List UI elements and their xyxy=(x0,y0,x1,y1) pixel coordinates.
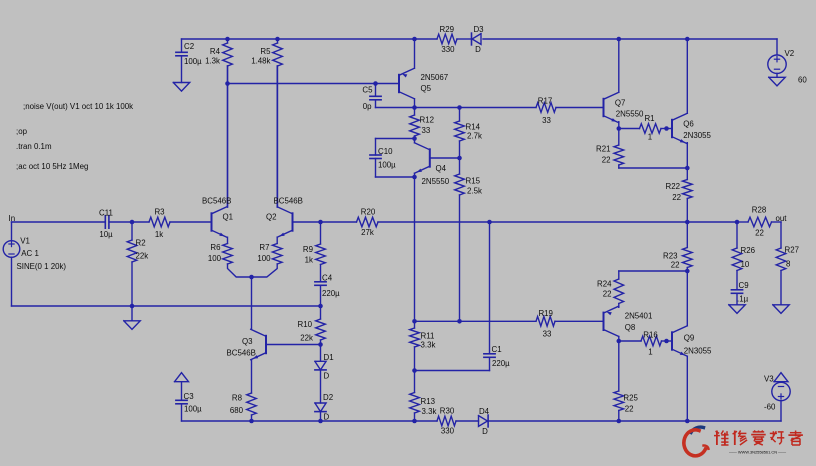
wire Q1 emitter xyxy=(227,237,229,243)
diode D3 xyxy=(472,33,482,45)
svg-text:AC 1: AC 1 xyxy=(21,249,39,258)
svg-text:D2: D2 xyxy=(323,393,333,402)
wire R1 to Q6 base xyxy=(667,128,673,130)
svg-text:Q6: Q6 xyxy=(683,120,694,129)
wire R23-R24 rail xyxy=(619,270,688,272)
wire Q2 base to R20 xyxy=(293,221,357,223)
svg-text:Q3: Q3 xyxy=(242,337,253,346)
svg-text:R27: R27 xyxy=(785,245,799,254)
resistor R25 xyxy=(614,341,624,421)
ground under C9 xyxy=(729,305,745,314)
svg-text:BC546B: BC546B xyxy=(274,197,303,206)
svg-text:R4: R4 xyxy=(210,47,221,56)
svg-text:22: 22 xyxy=(625,404,634,413)
svg-text:2N5550: 2N5550 xyxy=(422,177,450,186)
svg-text:R1: R1 xyxy=(644,114,654,123)
svg-text:Q8: Q8 xyxy=(625,323,636,332)
wire Q1 collector xyxy=(227,66,229,207)
capacitor C2 xyxy=(176,39,187,83)
svg-text:R25: R25 xyxy=(623,394,638,403)
wire Q6 emitter xyxy=(686,143,688,168)
svg-text:1k: 1k xyxy=(305,256,313,265)
svg-text:2N5067: 2N5067 xyxy=(421,73,449,82)
svg-text:22: 22 xyxy=(603,290,612,299)
resistor R13 xyxy=(410,371,420,422)
wire R11 bottom to C1 xyxy=(415,370,490,372)
resistor R7 xyxy=(252,244,283,278)
svg-text:1: 1 xyxy=(648,347,652,356)
resistor R22 xyxy=(683,168,693,222)
svg-text:;op: ;op xyxy=(16,127,28,136)
svg-text:2N5401: 2N5401 xyxy=(625,312,653,321)
svg-text:D: D xyxy=(482,427,488,436)
svg-text:BC546B: BC546B xyxy=(202,197,231,206)
svg-text:C4: C4 xyxy=(322,274,333,283)
capacitor C5 xyxy=(370,84,381,108)
svg-text:C9: C9 xyxy=(739,281,750,290)
svg-text:100: 100 xyxy=(208,254,222,263)
svg-text:R19: R19 xyxy=(538,309,553,318)
wire ground rail xyxy=(12,305,321,307)
svg-text:Q5: Q5 xyxy=(421,84,432,93)
node in wire xyxy=(12,221,106,223)
wire Q2 emitter xyxy=(276,237,278,243)
wire Q2 collector xyxy=(276,66,278,207)
diode D1 xyxy=(315,345,326,370)
svg-text:1k: 1k xyxy=(155,230,163,239)
svg-text:1: 1 xyxy=(648,133,652,142)
svg-text:C3: C3 xyxy=(184,392,195,401)
svg-text:R23: R23 xyxy=(663,251,678,260)
transistor Q3 xyxy=(251,329,266,359)
wire bottom rail xyxy=(182,401,782,421)
svg-text:680: 680 xyxy=(230,406,244,415)
watermark logo xyxy=(684,427,709,456)
svg-text:R13: R13 xyxy=(421,397,436,406)
svg-text:R9: R9 xyxy=(303,245,314,254)
wire Q8 collector xyxy=(618,337,620,342)
svg-text:R3: R3 xyxy=(154,208,165,217)
transistor Q9 xyxy=(672,326,687,356)
svg-text:R15: R15 xyxy=(466,177,481,186)
transistor Q5 xyxy=(399,68,414,98)
svg-text:V3: V3 xyxy=(764,375,774,384)
svg-text:10: 10 xyxy=(741,260,750,269)
resistor R27 xyxy=(776,248,786,305)
svg-text:100µ: 100µ xyxy=(184,57,202,66)
resistor R20 xyxy=(357,217,379,227)
svg-text:3.3k: 3.3k xyxy=(421,341,436,350)
svg-text:8: 8 xyxy=(786,260,791,269)
svg-text:BC546B: BC546B xyxy=(227,349,256,358)
wire LTP tail xyxy=(251,277,253,329)
wire Q5 emitter xyxy=(414,39,416,68)
resistor R8 xyxy=(247,393,257,421)
svg-text:22: 22 xyxy=(671,260,680,269)
svg-text:R21: R21 xyxy=(596,145,610,154)
ground under V2 xyxy=(769,73,785,86)
svg-text:R7: R7 xyxy=(259,243,269,252)
svg-text:;ac oct 10 5Hz 1Meg: ;ac oct 10 5Hz 1Meg xyxy=(16,162,88,171)
capacitor C10 loop xyxy=(370,139,415,178)
capacitor C1 xyxy=(484,222,495,371)
wire Q4 emitter xyxy=(414,173,416,177)
svg-text:Q2: Q2 xyxy=(266,213,277,222)
ground under R27 xyxy=(773,305,789,314)
svg-text:Q7: Q7 xyxy=(615,98,626,107)
wire Q4 base xyxy=(430,157,460,159)
wire R21-Q6e rail xyxy=(619,167,688,169)
wire Q1-collector rail xyxy=(228,83,400,85)
svg-text:R22: R22 xyxy=(666,182,680,191)
svg-text:V1: V1 xyxy=(20,237,30,246)
svg-text:R14: R14 xyxy=(466,123,481,132)
svg-text:2.5k: 2.5k xyxy=(467,187,482,196)
resistor R14 xyxy=(455,108,465,159)
svg-text:V2: V2 xyxy=(785,49,795,58)
resistor R24 xyxy=(614,271,624,307)
svg-text:220µ: 220µ xyxy=(322,289,340,298)
ground under R2 xyxy=(124,306,140,329)
wire fb rail xyxy=(415,320,604,322)
wire Q7 emitter xyxy=(618,122,620,129)
svg-text:330: 330 xyxy=(441,427,455,436)
svg-text:3.3k: 3.3k xyxy=(422,407,437,416)
resistor R21 xyxy=(614,129,624,169)
resistor R30 xyxy=(437,416,456,426)
svg-text:D: D xyxy=(475,45,481,54)
svg-text:R20: R20 xyxy=(361,207,376,216)
wire Q3 emitter xyxy=(251,360,253,393)
ground under C2 xyxy=(173,83,189,92)
resistor R3 xyxy=(149,217,212,227)
svg-text:R17: R17 xyxy=(538,96,552,105)
svg-text:22k: 22k xyxy=(300,334,313,343)
svg-text:out: out xyxy=(776,214,788,223)
capacitor C4 xyxy=(315,282,326,306)
svg-text:2.7k: 2.7k xyxy=(467,132,482,141)
resistor R2 xyxy=(127,222,137,306)
svg-text:;noise V(out) V1 oct 10 1k 100: ;noise V(out) V1 oct 10 1k 100k xyxy=(23,102,133,111)
svg-text:-60: -60 xyxy=(764,402,776,411)
svg-text:33: 33 xyxy=(422,126,431,135)
watermark text xyxy=(714,431,803,455)
svg-text:R2: R2 xyxy=(136,239,146,248)
svg-text:R28: R28 xyxy=(752,205,767,214)
capacitor C9 xyxy=(731,290,742,305)
svg-text:R11: R11 xyxy=(421,332,435,341)
wire out drop xyxy=(780,222,782,248)
svg-text:60: 60 xyxy=(798,76,807,85)
svg-text:R29: R29 xyxy=(440,25,455,34)
resistor R24 lead xyxy=(618,306,620,308)
svg-text:SINE(0 1 20k): SINE(0 1 20k) xyxy=(17,262,67,271)
svg-text:R8: R8 xyxy=(232,393,243,402)
svg-text:D4: D4 xyxy=(479,407,490,416)
svg-text:D: D xyxy=(324,371,330,380)
resistor R10 xyxy=(316,306,326,345)
wire Q7 base lead xyxy=(603,107,605,109)
voltage source V1 xyxy=(3,222,20,306)
svg-text:220µ: 220µ xyxy=(492,359,510,368)
svg-text:Q9: Q9 xyxy=(684,333,695,342)
svg-text:100: 100 xyxy=(257,254,271,263)
svg-text:100µ: 100µ xyxy=(378,161,396,170)
svg-text:R12: R12 xyxy=(420,116,434,125)
svg-text:D: D xyxy=(324,412,330,421)
resistor R29 xyxy=(437,34,457,44)
svg-text:33: 33 xyxy=(542,116,551,125)
resistor R26 xyxy=(732,222,742,290)
svg-text:Q1: Q1 xyxy=(223,213,234,222)
capacitor C3 xyxy=(175,373,189,421)
svg-text:C2: C2 xyxy=(184,42,194,51)
svg-text:22: 22 xyxy=(602,156,611,165)
svg-text:2N5550: 2N5550 xyxy=(616,110,644,119)
wire out rail xyxy=(378,221,737,223)
wire Q7 collector xyxy=(618,39,620,92)
svg-text:R5: R5 xyxy=(260,47,271,56)
diode D4 xyxy=(479,415,489,427)
resistor R5 xyxy=(273,39,283,207)
svg-text:R26: R26 xyxy=(741,246,756,255)
transistor Q1 xyxy=(212,207,227,237)
resistor R9 xyxy=(316,222,326,282)
svg-text:C1: C1 xyxy=(492,345,502,354)
transistor Q6 xyxy=(672,113,687,143)
svg-text:2N3055: 2N3055 xyxy=(684,346,712,355)
svg-text:33: 33 xyxy=(543,330,552,339)
svg-text:D3: D3 xyxy=(473,25,484,34)
diode D2 xyxy=(315,370,326,421)
wire C11 to R3 xyxy=(109,221,149,223)
svg-text:1.3k: 1.3k xyxy=(205,57,220,66)
svg-text:Q4: Q4 xyxy=(436,164,447,173)
resistor R11 xyxy=(410,321,420,370)
wire R16 to Q9 base xyxy=(667,340,673,342)
svg-text:—— WWW.3N2558561.CN ——: —— WWW.3N2558561.CN —— xyxy=(729,450,786,455)
wire top +rail xyxy=(182,39,778,55)
resistor R16 xyxy=(619,336,667,346)
resistor R6 xyxy=(223,244,252,278)
svg-text:.1µ: .1µ xyxy=(737,295,749,304)
svg-text:10µ: 10µ xyxy=(99,230,113,239)
transistor Q7 xyxy=(604,92,619,122)
wire Q4e to fb node xyxy=(414,177,416,321)
svg-text:D1: D1 xyxy=(324,353,334,362)
transistor Q4 xyxy=(415,143,430,173)
svg-text:330: 330 xyxy=(441,45,455,54)
voltage source V3 xyxy=(772,373,790,401)
wire Q4 collector xyxy=(414,139,416,143)
transistor Q2 xyxy=(277,207,292,237)
svg-text:1.48k: 1.48k xyxy=(251,57,270,66)
wire Q9 collector xyxy=(686,271,688,326)
svg-text:.tran 0.1m: .tran 0.1m xyxy=(16,142,52,151)
resistor R12 xyxy=(410,108,420,139)
resistor R15 xyxy=(455,158,465,321)
transistor Q8 xyxy=(604,306,619,336)
svg-text:R10: R10 xyxy=(298,320,313,329)
capacitor C11 xyxy=(105,216,109,228)
svg-text:22: 22 xyxy=(755,228,764,237)
svg-text:C10: C10 xyxy=(378,147,393,156)
svg-text:0p: 0p xyxy=(363,102,372,111)
voltage source V2 xyxy=(768,55,786,73)
resistor R17 xyxy=(536,103,556,113)
resistor R19 xyxy=(536,317,555,327)
wire Q9 emitter xyxy=(686,356,688,421)
wire Q6 collector xyxy=(686,39,688,113)
svg-text:27k: 27k xyxy=(361,228,374,237)
resistor R1 xyxy=(619,124,667,134)
resistor R28 xyxy=(737,217,781,227)
svg-text:R30: R30 xyxy=(440,407,455,416)
svg-text:C11: C11 xyxy=(99,209,113,218)
svg-text:2N3055: 2N3055 xyxy=(683,131,711,140)
svg-text:100µ: 100µ xyxy=(184,405,202,414)
svg-text:R16: R16 xyxy=(643,331,658,340)
svg-text:R24: R24 xyxy=(597,280,612,289)
resistor R4 xyxy=(223,39,233,207)
svg-text:R6: R6 xyxy=(210,243,221,252)
wire VAS-base rail xyxy=(376,107,604,109)
wire Q3 base xyxy=(266,344,321,346)
resistor R23 xyxy=(683,222,693,271)
svg-text:22: 22 xyxy=(672,193,681,202)
svg-text:22k: 22k xyxy=(136,252,149,261)
wire Q5 collector xyxy=(414,99,416,108)
svg-text:C5: C5 xyxy=(362,86,373,95)
svg-text:In: In xyxy=(9,214,16,223)
